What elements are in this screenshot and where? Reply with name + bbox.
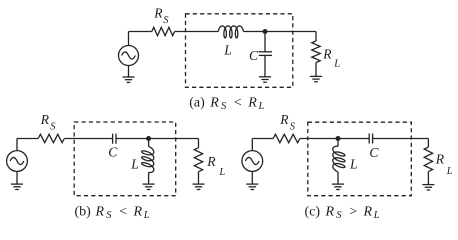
ground under C (a) <box>259 77 271 82</box>
wire source-bottom (a) <box>128 66 130 78</box>
capacitor C (c) <box>369 134 372 144</box>
resistor RL (a) <box>312 41 320 63</box>
node junction (a) <box>263 30 267 34</box>
wire source-bottom (b) <box>16 171 18 184</box>
wire source-bottom (c) <box>251 171 253 184</box>
node junction (c) <box>336 137 340 141</box>
inductor L (c) <box>333 146 345 172</box>
ac source V3 (c) <box>242 151 263 172</box>
svg-text:R: R <box>95 204 105 219</box>
dashed matching-network box (c) <box>308 122 412 196</box>
ground under source (a) <box>123 77 135 82</box>
svg-text:S: S <box>336 210 342 221</box>
ground under RL (a) <box>310 76 322 81</box>
svg-text:(c): (c) <box>305 204 321 219</box>
svg-text:<: < <box>119 204 127 219</box>
svg-text:L: L <box>258 101 265 112</box>
resistor RS (c) <box>273 134 300 142</box>
wire node to L (b) <box>148 139 150 147</box>
svg-text:R: R <box>435 152 445 167</box>
svg-text:R: R <box>279 112 289 127</box>
wire source to RS (b) <box>17 139 38 151</box>
svg-text:R: R <box>153 6 163 21</box>
svg-text:R: R <box>133 204 143 219</box>
dashed matching-network box (b) <box>74 122 176 196</box>
svg-text:R: R <box>363 204 373 219</box>
wire RL to ground (a) <box>315 63 317 77</box>
ground under L (b) <box>143 184 155 189</box>
ground under L (c) <box>332 184 344 189</box>
svg-text:S: S <box>163 15 169 26</box>
wire RS to L (a) <box>175 31 219 33</box>
ac source V2 (b) <box>7 151 28 172</box>
wire C to node to corner (b) <box>116 138 199 140</box>
svg-text:L: L <box>218 167 225 178</box>
wire RS to node (c) <box>300 138 369 140</box>
resistor RS (a) <box>152 27 175 35</box>
svg-text:R: R <box>40 112 50 127</box>
svg-text:S: S <box>221 101 227 112</box>
svg-text:R: R <box>322 46 332 61</box>
wire C to RL (c) <box>373 139 429 148</box>
ground under RL (b) <box>193 184 205 189</box>
capacitor C (a) <box>259 52 272 56</box>
resistor RL (b) <box>194 148 202 172</box>
svg-text:C: C <box>369 145 379 160</box>
svg-text:(b): (b) <box>75 204 92 219</box>
svg-text:L: L <box>373 210 380 221</box>
svg-text:S: S <box>106 210 112 221</box>
wire source to RS (a) <box>129 32 152 46</box>
resistor RL (c) <box>424 147 432 172</box>
svg-text:L: L <box>333 58 340 69</box>
wire C to ground (a) <box>264 55 266 76</box>
resistor RS (b) <box>38 134 64 142</box>
svg-text:L: L <box>143 210 150 221</box>
svg-text:S: S <box>290 121 296 132</box>
node junction (b) <box>147 137 151 141</box>
wire node to RL (a) <box>265 32 316 42</box>
svg-text:C: C <box>249 48 259 63</box>
svg-text:R: R <box>209 96 219 111</box>
wire RL to ground (b) <box>198 172 200 184</box>
svg-text:R: R <box>247 96 257 111</box>
dashed matching-network box (a) <box>186 14 293 88</box>
wire L to ground (b) <box>148 173 150 185</box>
inductor L (a) <box>218 26 243 38</box>
svg-text:L: L <box>349 156 358 171</box>
svg-text:>: > <box>349 204 357 219</box>
wire corner to RL (b) <box>198 139 200 148</box>
svg-text:(a): (a) <box>189 96 205 111</box>
wire node to L (c) <box>337 139 339 147</box>
wire L to node (a) <box>243 31 265 33</box>
svg-text:R: R <box>206 154 216 169</box>
capacitor C (b) <box>113 134 116 144</box>
ground under source (c) <box>246 184 258 189</box>
ground under source (b) <box>11 184 23 189</box>
ac source V1 (a) <box>119 46 139 66</box>
svg-text:C: C <box>108 144 118 159</box>
svg-text:L: L <box>446 166 453 177</box>
svg-text:L: L <box>223 42 232 57</box>
ground under RL (c) <box>422 185 434 190</box>
wire node to C (a) <box>264 32 266 52</box>
svg-text:<: < <box>234 96 242 111</box>
inductor L (b) <box>142 146 154 172</box>
wire source to RS (c) <box>252 139 273 151</box>
svg-text:L: L <box>130 157 139 172</box>
svg-text:R: R <box>325 204 335 219</box>
wire L to ground (c) <box>337 172 339 184</box>
wire RL to ground (c) <box>427 172 429 185</box>
wire RS to C (b) <box>64 138 112 140</box>
svg-text:S: S <box>50 121 56 132</box>
